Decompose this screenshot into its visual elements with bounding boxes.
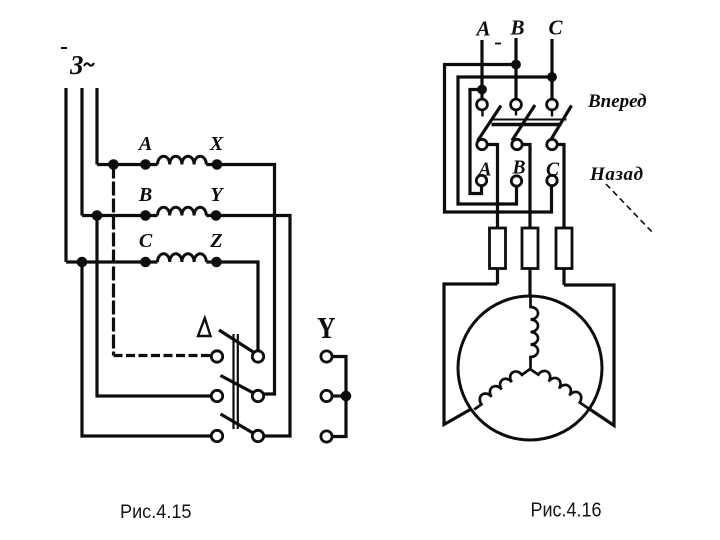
wire C phase to reverse contact B' [458,77,552,204]
label reverse contact A [476,160,491,181]
label phase C [548,16,563,40]
motor frame left [444,284,498,425]
switch S1 pole 2 right contact [252,390,263,401]
svg-text:3: 3 [69,50,84,80]
wire row A left [97,163,158,166]
switch forward output contact A [477,139,487,149]
label B [138,184,152,206]
svg-text:B: B [138,184,152,206]
node Y terminal [211,210,222,221]
switch forward input contact C [547,99,558,110]
node feed A junction [477,85,487,95]
node C terminal [140,257,151,268]
wire supply phase 3 [95,88,98,165]
switch S1 blade pole 1 [219,330,254,353]
label Назад (backward) [589,164,644,185]
switch blade C [551,106,572,140]
switch blade B [512,105,535,141]
svg-text:C: C [139,230,153,252]
node star bus junction [341,391,352,402]
svg-text:A: A [137,133,152,155]
switch forward input contact A [477,99,488,110]
switch linkage bar [492,119,567,121]
winding A-X coil [158,156,207,164]
wire fuse F2 to star point lead [528,269,531,298]
wire branch phase C to switch pole 3 [82,262,211,436]
fuse F2 [522,228,538,269]
node A-row branch junction [108,159,119,170]
winding C-Z coil [158,254,207,262]
fuse F3 [556,228,572,269]
switch reverse contact A' [476,175,486,185]
contact jaw stub B [515,110,517,116]
node feed B junction [511,60,521,70]
svg-text:B: B [509,16,524,40]
switch forward output contact C [547,139,557,149]
svg-text:A: A [474,17,490,41]
motor frame right [564,285,614,426]
svg-text:Вперед: Вперед [587,91,647,112]
wire row B right to Y drop [206,216,290,437]
switch S1 blade pole 2 [221,376,254,394]
label C [139,230,153,252]
wire row C left [66,260,158,263]
delta symbol label [198,318,211,336]
node B terminal [140,210,151,221]
label 3~ (three-phase supply) [69,50,84,80]
svg-text:Назад: Назад [589,164,644,185]
switch linkage bar lower [492,123,562,127]
motor M1 stator circle [458,296,602,440]
node C-row branch junction [77,257,88,268]
wire forward A to fuse F1 [488,145,498,229]
contact jaw stub C [551,111,553,117]
wire feed B [514,38,517,100]
switch S1 linkage bar [234,334,238,429]
svg-text:Z: Z [209,230,222,252]
wire fuse F1 to motor frame [496,269,499,285]
switch S1 pole 2 left contact [211,390,222,401]
label A (winding start) [137,133,152,155]
leader line to reverse contacts (dashed) [606,184,654,234]
caption Рис.4.16 [531,499,602,522]
switch S2 contact 2 [321,390,332,401]
wire supply phase 2 [80,88,83,216]
wire star bus tap [332,394,346,397]
label X (winding end) [209,133,224,155]
svg-text:Y: Y [210,184,224,206]
switch forward output contact B [512,139,522,149]
switch S1 pole 1 right contact [252,351,263,362]
switch reverse contact B' [511,176,521,186]
wire forward B to fuse F2 [522,145,530,229]
switch forward input contact B [511,99,522,110]
switch blade A [478,106,502,142]
motor winding 1 (top) [531,297,539,369]
tilde of 3~ [84,63,94,66]
switch reverse contact C' [547,175,557,185]
stray tick mark [495,43,501,45]
switch S1 pole 1 left contact [211,351,222,362]
wire B phase to reverse contact C' [445,65,552,213]
switch S2 contact 3 [321,431,332,442]
wire branch phase B to switch pole 2 [97,216,211,397]
wire supply phase 1 [64,88,67,262]
label reverse contact C [546,160,560,181]
svg-text:Y: Y [317,310,336,345]
wire row C right to Z drop [206,262,258,351]
switch S1 pole 3 left contact [211,430,222,441]
wire feed A [480,40,483,100]
node A terminal [140,159,151,170]
wire fuse F3 to motor frame [562,269,565,286]
wire forward C to fuse F3 [557,145,564,229]
winding B-Y coil [158,207,207,215]
svg-text:C: C [548,16,563,40]
fuse F1 [490,228,506,269]
wire row A right to X drop [206,165,274,395]
wire branch phase A to switch pole 1 (dashed) [112,165,115,356]
wire row B left [82,214,158,217]
switch S1 blade pole 3 [221,414,254,433]
stray tick mark [61,47,67,49]
wire A phase to reverse contact A' [470,90,482,194]
motor winding 2 (lower left) [470,363,530,410]
svg-text:X: X [209,133,224,155]
label Вперед (forward) [587,91,647,112]
node X terminal [212,159,223,170]
node B-row branch junction [92,210,103,221]
svg-text:Рис.4.15: Рис.4.15 [120,501,192,523]
label Y (star position) [317,310,336,345]
label phase B [509,16,524,40]
label Y [210,184,224,206]
caption Рис.4.15 [120,501,192,523]
contact jaw stub A [481,111,483,117]
motor winding 3 (lower right) [530,363,594,409]
node Z terminal [211,257,222,268]
switch S2 contact 1 [321,351,332,362]
node feed C junction [547,72,557,82]
svg-text:Рис.4.16: Рис.4.16 [531,499,602,522]
label Z [209,230,222,252]
wire star bus [332,357,346,437]
label reverse contact B [511,158,525,179]
switch S1 pole 3 right contact [252,430,263,441]
wire feed C [550,39,553,100]
label phase A [474,17,490,41]
